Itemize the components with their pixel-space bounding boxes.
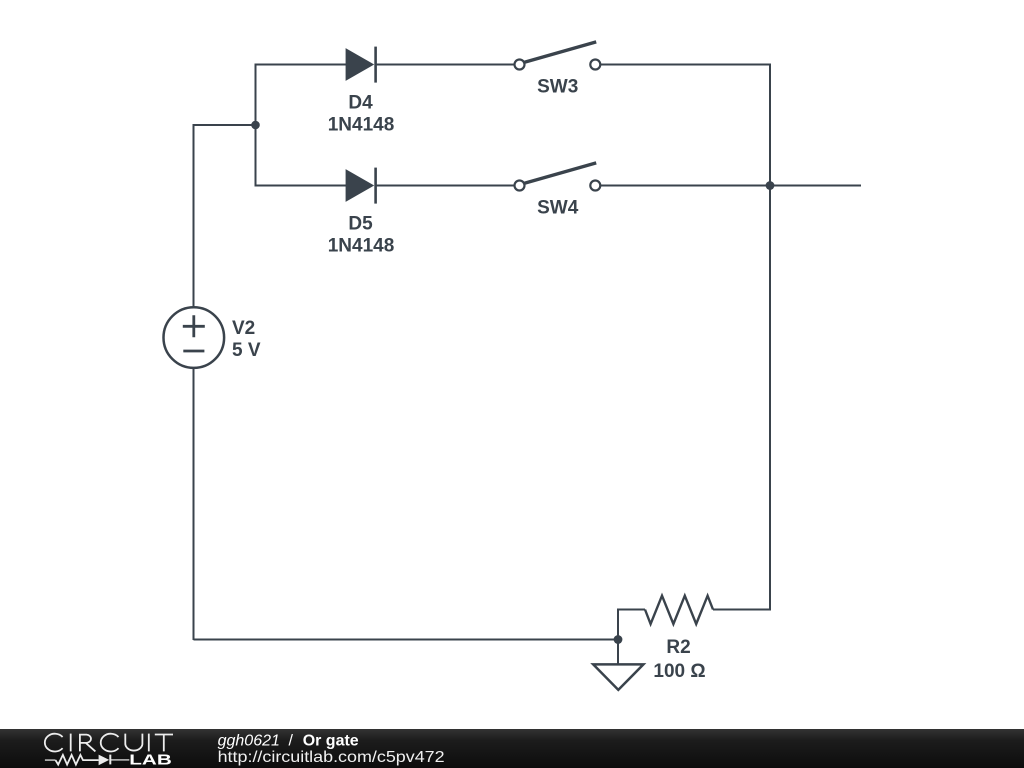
wire: right vertical rail — [769, 64, 771, 610]
diode D4 — [346, 47, 376, 83]
svg-text:ggh0621: ggh0621 — [218, 732, 280, 749]
junction dot: node A — [251, 121, 260, 130]
voltage source V2 — [164, 307, 225, 368]
svg-text:5 V: 5 V — [232, 340, 261, 361]
svg-text:D4: D4 — [348, 92, 373, 113]
svg-text:SW4: SW4 — [537, 197, 579, 218]
svg-text:/: / — [289, 732, 294, 749]
svg-text:V2: V2 — [232, 318, 255, 339]
wire: right rail to resistor R2 right lead — [713, 609, 771, 611]
wire: D5 cathode to SW4 — [376, 185, 515, 187]
wire: SW4 to output node — [600, 185, 770, 187]
switch SW4 — [515, 163, 601, 191]
junction dot: output node — [766, 181, 775, 190]
diode D5 — [346, 168, 376, 204]
footer title line: ggh0621 / Or gate — [218, 732, 359, 749]
ground — [593, 640, 643, 690]
svg-text:http://circuitlab.com/c5pv472: http://circuitlab.com/c5pv472 — [218, 749, 445, 766]
footer bar — [0, 729, 1024, 768]
wire: left vertical rail from node A down to bottom rail — [193, 124, 195, 640]
resistor R2 zigzag body — [645, 596, 713, 624]
svg-text:R2: R2 — [666, 637, 690, 658]
logo wordmark CIRCUIT (drawn strokes) — [45, 734, 173, 752]
wire: resistor R2 left lead down to ground node — [618, 610, 645, 641]
wire: left rail top horizontal into node A — [194, 124, 256, 126]
junction dot: ground node — [614, 635, 623, 644]
logo schematic squiggle: resistor and diode — [45, 755, 129, 766]
svg-text:1N4148: 1N4148 — [328, 115, 395, 136]
svg-text:100 Ω: 100 Ω — [653, 661, 705, 682]
wire: D4 cathode to SW3 — [376, 64, 515, 66]
wire: row1 anode lead to D4 — [256, 64, 348, 66]
wire: output stub to the right — [770, 185, 861, 187]
svg-text:1N4148: 1N4148 — [328, 236, 395, 257]
svg-text:D5: D5 — [348, 213, 373, 234]
wire: row2 anode lead to D5 — [256, 185, 348, 187]
wire: bottom rail from left rail to ground node — [194, 639, 619, 641]
svg-text:SW3: SW3 — [537, 76, 578, 97]
switch SW3 — [515, 42, 601, 70]
wire: SW3 to right rail — [600, 64, 771, 66]
svg-text:LAB: LAB — [129, 752, 172, 768]
svg-text:Or gate: Or gate — [303, 732, 359, 749]
wire: input branch vertical between row1 and row2 — [255, 64, 257, 187]
